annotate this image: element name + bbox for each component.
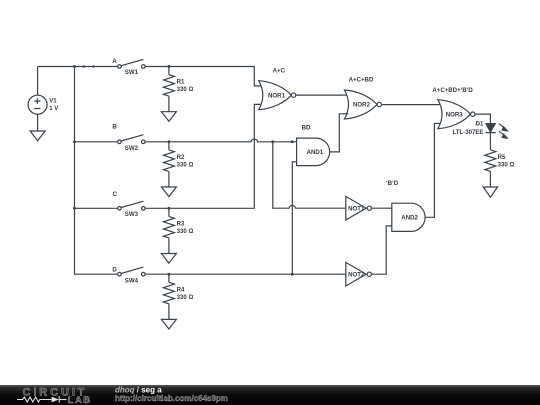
LED D1	[485, 124, 508, 140]
svg-text:AND1: AND1	[307, 149, 324, 156]
switch SW2	[118, 135, 146, 144]
svg-text:R4: R4	[177, 286, 185, 293]
wire NOT1 out to AND2	[372, 207, 392, 209]
svg-text:R3: R3	[177, 220, 185, 227]
svg-text:SW2: SW2	[125, 145, 139, 152]
and gate AND1	[297, 138, 330, 166]
resistor R1	[163, 67, 174, 112]
svg-text:NOT1: NOT1	[348, 205, 365, 212]
logo squiggle resistor-diode	[17, 396, 67, 402]
not gate NOT1	[346, 196, 372, 220]
wire NOR1 out to NOR2	[296, 94, 349, 96]
node A bus junction	[73, 65, 76, 68]
svg-text:330 Ω: 330 Ω	[177, 228, 194, 235]
wire endpoint dot	[92, 65, 95, 68]
and gate AND2	[392, 203, 425, 231]
svg-text:NOR3: NOR3	[446, 111, 464, 118]
svg-text:C: C	[113, 191, 118, 198]
svg-text:SW3: SW3	[125, 211, 139, 218]
op gate NOR3	[438, 100, 475, 129]
resistor R2	[163, 142, 174, 187]
svg-text:LTL-307EE: LTL-307EE	[452, 129, 483, 136]
svg-text:AND2: AND2	[401, 215, 418, 222]
wire LED to R5	[489, 133, 491, 150]
svg-text:A+C: A+C	[273, 67, 286, 74]
ground (below R3)	[161, 254, 176, 264]
switch SW4	[118, 267, 146, 276]
svg-text:A: A	[112, 58, 117, 65]
svg-text:NOT2: NOT2	[348, 271, 365, 278]
wire bus to SW3	[75, 207, 118, 209]
svg-text:1 V: 1 V	[49, 105, 59, 112]
wire B branch down to NOT1 with hop	[273, 142, 346, 208]
footer bar	[0, 385, 540, 405]
svg-text:330 Ω: 330 Ω	[177, 86, 194, 93]
svg-text:NOR2: NOR2	[353, 102, 371, 109]
wire NOR2 out to NOR3	[382, 104, 442, 106]
wire row A SW1 to corner, down to NOR1 input	[145, 67, 262, 86]
wire bus vertical V1 to row D	[75, 67, 118, 275]
svg-text:NOR1: NOR1	[268, 92, 286, 99]
wire D branch up to AND1 lower input	[292, 162, 296, 274]
svg-text:R5: R5	[498, 154, 506, 161]
svg-text:D: D	[112, 266, 117, 273]
svg-text:R2: R2	[177, 154, 185, 161]
wire NOR3 out to LED	[475, 114, 490, 124]
svg-text:D1: D1	[476, 121, 484, 128]
wire row B SW2 to AND1 with hop	[145, 139, 297, 142]
wire row C SW3 to corner up to NOR1 lower input	[145, 104, 262, 208]
node R1 top	[167, 65, 170, 68]
svg-text:330 Ω: 330 Ω	[498, 162, 515, 169]
wire endpoint dot	[82, 65, 85, 68]
switch SW3	[118, 201, 146, 210]
ground (below R2)	[161, 187, 176, 197]
voltage source V1	[28, 67, 47, 132]
resistor R5	[485, 150, 496, 187]
svg-text:BD: BD	[302, 125, 311, 132]
svg-text:B: B	[112, 124, 117, 131]
svg-text:LAB: LAB	[68, 395, 92, 405]
svg-text:ʼBʼD: ʼBʼD	[386, 180, 399, 187]
wire bus to SW2	[75, 141, 118, 143]
wire AND2 out up to NOR3 lower input	[425, 124, 442, 218]
ground (below R5)	[483, 187, 497, 197]
resistor R3	[163, 208, 174, 253]
wire AND1 out to NOR2 lower input	[330, 114, 349, 152]
svg-text:V1: V1	[49, 98, 57, 105]
svg-text:330 Ω: 330 Ω	[177, 162, 194, 169]
svg-text:330 Ω: 330 Ω	[177, 294, 194, 301]
svg-text:A+C+BD+ʼBʼD: A+C+BD+ʼBʼD	[432, 87, 473, 94]
ground (below R4)	[161, 319, 176, 329]
wire row A from V1 to SW1	[38, 66, 118, 68]
svg-text:http://circuitlab.com/c64s9pm: http://circuitlab.com/c64s9pm	[115, 394, 228, 403]
svg-text:SW1: SW1	[125, 69, 139, 76]
wire row D SW4 to NOT2	[145, 273, 346, 275]
svg-text:SW4: SW4	[125, 277, 139, 284]
ground (below R1)	[161, 112, 176, 122]
ground (below V1)	[30, 131, 45, 141]
resistor R4	[163, 274, 174, 319]
op gate NOR1	[259, 81, 296, 110]
svg-text:A+C+BD: A+C+BD	[349, 76, 374, 83]
op gate NOR2	[344, 90, 381, 119]
not gate NOT2	[346, 262, 372, 286]
switch SW1	[118, 59, 146, 68]
wire NOT2 out up to AND2 lower input	[372, 226, 392, 274]
svg-text:R1: R1	[177, 79, 185, 86]
